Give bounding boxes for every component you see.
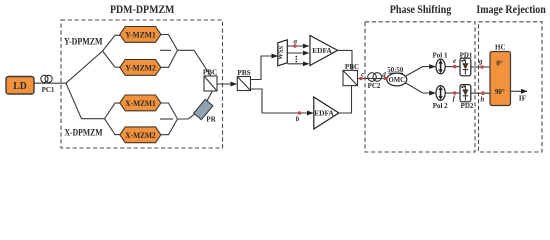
svg-text:b: b [296, 115, 300, 123]
svg-text:EDFA: EDFA [312, 46, 332, 55]
svg-text:PR: PR [206, 116, 216, 124]
svg-text:PC1: PC1 [42, 86, 55, 94]
svg-text:HC: HC [495, 44, 506, 52]
svg-text:EDFA: EDFA [314, 109, 334, 118]
svg-text:PD2: PD2 [461, 102, 474, 110]
svg-text:OMC: OMC [389, 75, 406, 84]
svg-text:IF: IF [519, 94, 527, 103]
svg-text:X-MZM2: X-MZM2 [125, 131, 156, 140]
svg-text:g: g [478, 58, 483, 66]
svg-text:Y-MZM1: Y-MZM1 [125, 30, 156, 39]
svg-text:0°: 0° [496, 60, 503, 68]
svg-text:Y-MZM2: Y-MZM2 [125, 63, 156, 72]
svg-text:c: c [361, 70, 364, 78]
svg-text:X-DPMZM: X-DPMZM [65, 129, 103, 139]
svg-text:e: e [453, 57, 456, 65]
svg-text:Phase Shifting: Phase Shifting [390, 2, 452, 16]
svg-text:Image Rejection: Image Rejection [476, 2, 546, 16]
svg-text:d: d [382, 71, 386, 79]
svg-text:90°: 90° [495, 88, 505, 96]
svg-text:WSS: WSS [277, 45, 285, 60]
svg-text:Pol 2: Pol 2 [433, 102, 448, 110]
svg-text:a: a [294, 38, 298, 46]
svg-text:PBC: PBC [345, 63, 359, 71]
svg-text:X-MZM1: X-MZM1 [125, 99, 156, 108]
svg-text:f: f [453, 95, 456, 103]
svg-text:Pol 1: Pol 1 [433, 51, 448, 59]
svg-text:PBC: PBC [203, 69, 217, 77]
svg-text:LD: LD [13, 80, 27, 92]
svg-text:h: h [480, 96, 484, 104]
svg-text:PBS: PBS [237, 69, 250, 77]
svg-text:PDM-DPMZM: PDM-DPMZM [110, 2, 175, 16]
svg-text:PD1: PD1 [460, 51, 473, 59]
svg-text:PC2: PC2 [368, 82, 381, 90]
svg-text:Y-DPMZM: Y-DPMZM [64, 37, 103, 47]
